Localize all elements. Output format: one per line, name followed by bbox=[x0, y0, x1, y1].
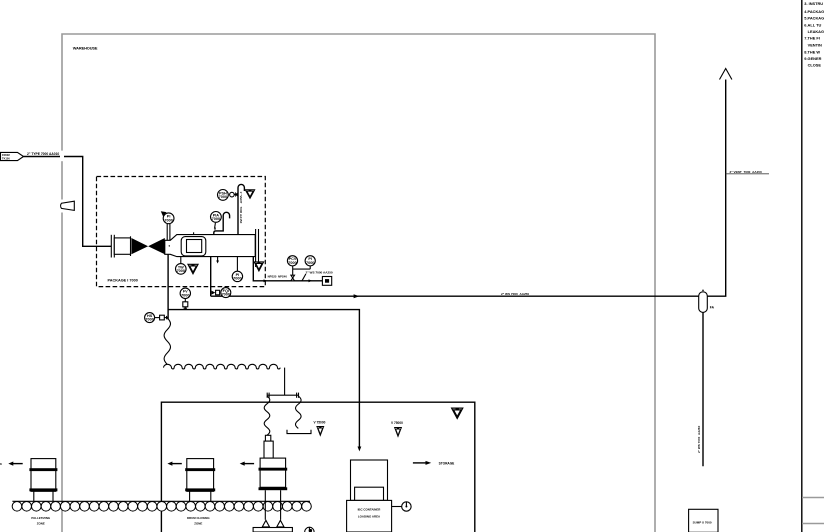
scale box bbox=[253, 528, 292, 532]
svg-text:FA: FA bbox=[710, 306, 715, 310]
svg-text:9.GENER: 9.GENER bbox=[804, 56, 821, 61]
conveyor rollers bbox=[12, 502, 311, 512]
title block row lines bbox=[802, 497, 824, 499]
feed line label bbox=[26, 151, 59, 156]
left hose to drum lance bbox=[264, 396, 270, 435]
meter display unit bbox=[181, 237, 206, 256]
fill lance bbox=[264, 441, 273, 458]
svg-text:LOADING AREA: LOADING AREA bbox=[358, 515, 381, 519]
drawing frame border bbox=[801, 0, 803, 532]
svg-text:1" VENT: 1" VENT bbox=[239, 192, 243, 204]
small top stub bbox=[193, 232, 195, 234]
flexible hose horizontal bbox=[164, 364, 281, 369]
svg-text:7000 AA150: 7000 AA150 bbox=[239, 207, 243, 224]
storage direction arrow bbox=[413, 462, 426, 464]
meter drain drop bbox=[210, 257, 212, 297]
wall marker flag bbox=[57, 200, 67, 213]
scale legs bbox=[264, 490, 266, 520]
svg-text:K: K bbox=[0, 462, 2, 466]
svg-text:7000: 7000 bbox=[233, 277, 241, 281]
XV stem below body bbox=[180, 257, 182, 264]
conveyor direction arrows bbox=[13, 463, 23, 465]
svg-text:2" VENT 7000 AA150: 2" VENT 7000 AA150 bbox=[730, 170, 763, 174]
svg-text:2" WS 7000 AA250: 2" WS 7000 AA250 bbox=[501, 292, 529, 296]
svg-text:ZONE: ZONE bbox=[37, 522, 45, 526]
small arrow before box bbox=[309, 279, 313, 282]
svg-text:ZONE: ZONE bbox=[194, 522, 202, 526]
svg-text:7000: 7000 bbox=[306, 261, 314, 265]
instrument bubble PI 7000 (line) bbox=[305, 256, 315, 266]
svg-text:4.PACKAG: 4.PACKAG bbox=[804, 9, 824, 14]
off-page connector (from supply) bbox=[1, 152, 24, 160]
vent triangle (package top) bbox=[245, 190, 254, 199]
warehouse boundary (grey) bbox=[62, 34, 655, 532]
conveyor centerline (grey) bbox=[12, 505, 310, 507]
instrument bubble FV 7000 bbox=[180, 288, 190, 298]
svg-text:6.ALL TU: 6.ALL TU bbox=[804, 22, 821, 27]
drum (palletizing zone) bbox=[31, 459, 56, 492]
svg-text:7000: 7000 bbox=[219, 195, 227, 199]
conveyor top rail bbox=[12, 500, 310, 502]
svg-text:DRUM CLOSING: DRUM CLOSING bbox=[187, 516, 210, 520]
svg-text:5.PACKAG: 5.PACKAG bbox=[804, 16, 824, 21]
svg-text:PALLETIZING: PALLETIZING bbox=[31, 516, 50, 520]
filling room boundary bbox=[161, 402, 474, 532]
inlet flange pair bbox=[110, 235, 112, 258]
svg-text:V 75000: V 75000 bbox=[314, 420, 326, 424]
package dashed boundary bbox=[97, 177, 266, 287]
drain tick arrow bbox=[217, 257, 219, 262]
lance connector bbox=[265, 435, 270, 441]
PIA tail bbox=[214, 223, 217, 228]
gauge pigtail siphon bbox=[214, 212, 230, 234]
svg-text:7000: 7000 bbox=[222, 293, 230, 297]
svg-text:WAREHOUSE: WAREHOUSE bbox=[73, 45, 98, 50]
hose parking bracket bbox=[287, 430, 311, 434]
drum (drum closing zone) bbox=[187, 459, 214, 492]
svg-text:STORAGE: STORAGE bbox=[439, 461, 455, 465]
1in vent line with gooseneck bbox=[238, 184, 244, 234]
vent triangle (outlet flange) bbox=[254, 262, 264, 271]
svg-text:CLOSE: CLOSE bbox=[808, 62, 822, 67]
svg-text:VENTIN: VENTIN bbox=[808, 42, 822, 47]
svg-text:8.THE W: 8.THE W bbox=[804, 49, 820, 54]
gauge flag bbox=[161, 211, 167, 216]
IBC container bbox=[351, 460, 388, 500]
svg-text:7.THE FI: 7.THE FI bbox=[804, 36, 820, 41]
drain line to sump bbox=[702, 312, 704, 466]
svg-text:FROM: FROM bbox=[2, 153, 10, 157]
hose coupling header bbox=[267, 393, 298, 398]
branch line to IBC filling bbox=[168, 310, 359, 448]
PI gauge stem bbox=[166, 224, 168, 240]
instrument bubble PI 7000 (bottom) bbox=[232, 271, 242, 281]
svg-text:2" TYPE 7000 AA010: 2" TYPE 7000 AA010 bbox=[27, 152, 59, 156]
flow arrow bbox=[354, 294, 360, 298]
PCV valve on stem bbox=[291, 275, 295, 281]
svg-text:7000: 7000 bbox=[177, 269, 185, 273]
instrument bubble PIA 7000 bbox=[211, 212, 222, 223]
right hose parked bbox=[296, 396, 302, 428]
svg-text:2" WS 7000 AA260: 2" WS 7000 AA260 bbox=[697, 425, 701, 453]
svg-text:SUMP X 7000: SUMP X 7000 bbox=[693, 521, 712, 525]
flow meter FE 7000 body bbox=[165, 235, 255, 257]
vent triangle (drum area) bbox=[317, 427, 324, 436]
instrument bubble PSH 7000 bbox=[218, 190, 229, 201]
svg-text:2" WS 7000 AA250: 2" WS 7000 AA250 bbox=[306, 270, 333, 274]
svg-text:PACKAGE I 7000: PACKAGE I 7000 bbox=[108, 278, 138, 282]
svg-text:7000: 7000 bbox=[181, 293, 189, 297]
svg-text:7000: 7000 bbox=[288, 261, 296, 265]
inlet spool bbox=[114, 238, 130, 254]
svg-text:V 75000: V 75000 bbox=[391, 421, 403, 425]
hose drop to coupling bbox=[284, 368, 286, 395]
drop line from package bbox=[167, 254, 169, 319]
drum (filling, on scale) bbox=[260, 458, 286, 487]
vent triangle (below meter) bbox=[188, 264, 198, 274]
svg-text:NPS25 NPS40: NPS25 NPS40 bbox=[268, 274, 288, 278]
meter outlet drop bbox=[253, 257, 322, 281]
instrument bubble PCV 7000 bbox=[287, 256, 297, 266]
svg-text:7000: 7000 bbox=[212, 217, 220, 221]
svg-text:7000: 7000 bbox=[164, 218, 172, 222]
svg-text:LEAKAG: LEAKAG bbox=[808, 29, 824, 34]
flexible hose vertical bbox=[164, 318, 170, 364]
utility box AB bbox=[322, 277, 331, 286]
instrument bubble PI 7000 gauge bbox=[163, 213, 174, 224]
flame arrestor FA bbox=[699, 292, 708, 313]
instrument bubble FQI 7000 bbox=[221, 288, 231, 298]
PI below stem bbox=[236, 257, 238, 272]
svg-text:IBC CONTAINER: IBC CONTAINER bbox=[358, 508, 382, 512]
vent triangle (IBC area) bbox=[395, 428, 402, 437]
vent riser to atmosphere bbox=[707, 80, 725, 297]
seal pot bbox=[230, 192, 235, 197]
svg-text:TK100: TK100 bbox=[2, 156, 10, 160]
IBC scale indicator bbox=[392, 506, 402, 508]
feed pipe bbox=[24, 157, 112, 247]
vent triangle (room corner) bbox=[452, 408, 463, 418]
svg-text:7000: 7000 bbox=[145, 318, 153, 322]
sump box bbox=[689, 509, 718, 532]
control valve (gate) V1 bbox=[131, 238, 148, 254]
meter outlet flange bbox=[255, 229, 257, 267]
scale indicator bbox=[305, 527, 314, 532]
instrument bubble TW 7000 bbox=[176, 264, 187, 275]
svg-text:3. INSTRU: 3. INSTRU bbox=[804, 1, 823, 6]
transfer line to flame arrestor bbox=[211, 295, 699, 297]
instrument bubble HS 7000 bbox=[145, 313, 155, 323]
